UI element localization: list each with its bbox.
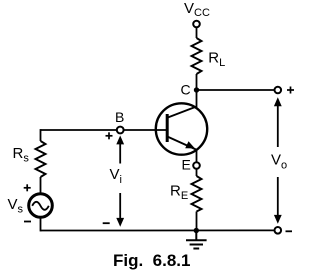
svg-text:Rs: Rs <box>13 145 30 165</box>
wire emitter to node E <box>196 150 198 162</box>
Vi measure arrow lower <box>116 193 124 227</box>
transistor Q1 emitter stroke <box>168 137 197 150</box>
svg-text:Fig. 6.8.1: Fig. 6.8.1 <box>113 251 190 270</box>
wire node E to RE <box>196 169 198 176</box>
svg-text:C: C <box>181 82 191 98</box>
wire RE to ground rail <box>196 212 198 231</box>
wire node C to collector <box>196 90 198 108</box>
svg-text:VCC: VCC <box>184 0 210 19</box>
wire Rs to source <box>40 177 42 193</box>
transistor Q1 collector stroke <box>168 107 197 118</box>
minus sign source <box>24 221 31 223</box>
plus sign source <box>24 184 31 191</box>
node C junction dot <box>194 87 199 92</box>
resistor RE <box>192 176 202 212</box>
Vi measure arrow upper <box>116 136 124 164</box>
node E terminal <box>193 162 200 169</box>
source Vs sine wave <box>32 202 49 210</box>
wire VCC to RL <box>196 27 198 38</box>
VCC terminal <box>193 21 200 28</box>
ground symbol <box>186 231 207 249</box>
minus sign output <box>286 230 293 232</box>
transistor Q1 circle <box>156 103 207 154</box>
svg-text:RE: RE <box>170 183 188 203</box>
node B terminal <box>117 127 124 134</box>
wire collector rail to output + terminal <box>197 89 275 91</box>
svg-text:RL: RL <box>208 50 225 70</box>
wire left rail vertical to Rs <box>40 129 42 141</box>
transistor Q1 emitter arrowhead <box>185 141 195 148</box>
ground junction dot <box>194 228 199 233</box>
Vo measure arrow upper <box>274 97 282 147</box>
output + terminal <box>275 87 282 94</box>
svg-text:Vi: Vi <box>110 166 122 186</box>
svg-text:Vo: Vo <box>271 152 287 172</box>
plus sign input <box>106 132 113 139</box>
minus sign input <box>103 222 110 224</box>
bottom rail wire <box>41 229 275 231</box>
svg-text:B: B <box>115 109 124 125</box>
wire B to base <box>124 129 166 131</box>
plus sign output <box>287 87 294 94</box>
svg-text:E: E <box>182 157 191 173</box>
transistor Q1 base bar <box>166 114 169 142</box>
resistor RL <box>192 38 202 74</box>
wire left rail to B <box>41 129 117 131</box>
svg-text:Vs: Vs <box>8 196 24 216</box>
output - terminal <box>275 227 282 234</box>
resistor Rs <box>36 141 46 177</box>
source Vs circle <box>29 194 53 218</box>
wire source to bottom rail <box>40 217 42 231</box>
Vo measure arrow lower <box>274 177 282 224</box>
wire RL to node C <box>196 74 198 90</box>
